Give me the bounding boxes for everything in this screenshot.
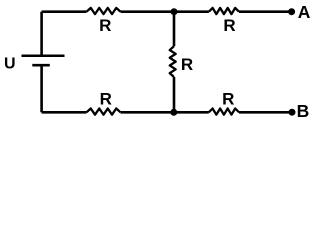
svg-text:R: R <box>222 89 234 108</box>
resistor R5 (bottom-right) <box>209 109 239 115</box>
wire bottom-left horizontal from source corner to R4 <box>42 111 87 114</box>
svg-text:U: U <box>4 56 16 73</box>
wire top-left horizontal from source corner to R1 <box>42 10 87 13</box>
wire middle vertical lower stub from R3 to bottom node <box>173 77 176 112</box>
resistor R4 (bottom-left) <box>87 109 121 115</box>
battery U negative (short) plate <box>32 64 50 67</box>
battery U positive (long) plate <box>22 54 65 57</box>
wire middle vertical upper stub from top node to R3 <box>173 12 176 47</box>
svg-text:R: R <box>223 16 235 35</box>
resistor R2 (top-right) <box>209 8 239 14</box>
wire top-right horizontal from R2 to terminal A <box>239 10 290 13</box>
wire left vertical from battery negative plate down to bottom wire <box>40 65 43 112</box>
svg-text:B: B <box>297 101 310 121</box>
wire bottom-middle horizontal from R4 to R5 through bottom node <box>121 111 209 114</box>
resistor R3 (middle vertical) <box>170 46 176 77</box>
terminal dot B <box>289 109 296 116</box>
wire top-middle horizontal from R1 to R2 through top node <box>121 10 209 13</box>
svg-text:A: A <box>298 2 311 22</box>
svg-text:R: R <box>100 89 112 108</box>
resistor R1 (top-left) <box>87 8 121 14</box>
wire left vertical from top wire down to battery positive plate <box>40 12 43 56</box>
svg-text:R: R <box>181 55 193 74</box>
terminal dot A <box>288 8 295 15</box>
wire bottom-right horizontal from R5 to terminal B <box>239 111 290 114</box>
junction bottom node <box>170 109 177 116</box>
svg-text:R: R <box>99 16 111 35</box>
junction top node <box>171 8 178 15</box>
